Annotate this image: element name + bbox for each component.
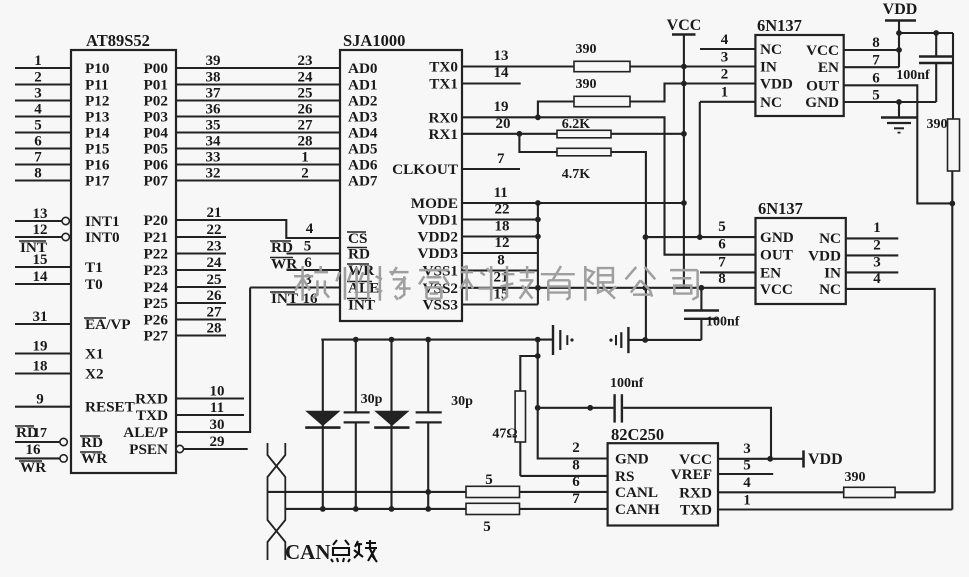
svg-text:26: 26 xyxy=(298,102,314,118)
svg-text:AT89S52: AT89S52 xyxy=(86,31,150,50)
SJA1000 VSS3 label xyxy=(423,297,459,314)
SJA1000 TX1 label xyxy=(429,76,458,93)
resistor R2 390 (RX0 pull-up to anode line) xyxy=(538,77,684,117)
SJA1000 ALE label (overlined) xyxy=(347,280,379,297)
twisted pair CAN bus symbol xyxy=(268,443,286,560)
svg-text:CAN: CAN xyxy=(285,540,331,564)
82C250 VREF pin 5 stub xyxy=(718,458,773,475)
svg-text:30: 30 xyxy=(210,417,225,433)
6N137 U4 pin 4 lead down to R8/RXD xyxy=(846,271,935,492)
svg-text:32: 32 xyxy=(206,166,221,182)
svg-text:100nf: 100nf xyxy=(896,68,930,83)
svg-text:CANL: CANL xyxy=(615,484,658,501)
wire ground rail down to 82C250 GND xyxy=(535,340,608,459)
svg-text:36: 36 xyxy=(206,102,222,118)
svg-text:ALE/P: ALE/P xyxy=(123,424,168,441)
wire AT89S52 P06 (pin 33) to SJA1000 AD bus (pin 1) xyxy=(144,150,340,174)
svg-text:SJA1000: SJA1000 xyxy=(343,31,405,50)
SJA1000 AD1 label xyxy=(348,77,378,94)
capacitor C5 100nf (82C250 supply) xyxy=(538,376,771,459)
svg-text:390: 390 xyxy=(927,117,948,132)
SJA1000 ALE pin 3 lead xyxy=(250,272,340,288)
wire R1 to 6N137 U3 pin 3 IN xyxy=(684,50,756,67)
SJA1000 CLKOUT label xyxy=(392,161,458,178)
svg-text:NC: NC xyxy=(760,94,782,111)
wire AT89S52 P05 (pin 34) to SJA1000 AD bus (pin 28) xyxy=(144,134,340,158)
svg-text:OUT: OUT xyxy=(760,247,793,264)
svg-text:26: 26 xyxy=(207,288,223,304)
6N137 U4 pin 1 NC stub xyxy=(846,220,899,238)
svg-text:8: 8 xyxy=(34,166,42,182)
SJA1000 AD0 label xyxy=(348,60,378,77)
svg-text:37: 37 xyxy=(206,86,222,102)
svg-text:VDD: VDD xyxy=(883,1,918,18)
svg-text:8: 8 xyxy=(872,35,880,51)
svg-text:27: 27 xyxy=(298,118,314,134)
AT89S52 pin 11 TXD stub xyxy=(136,400,244,424)
svg-text:7: 7 xyxy=(34,150,42,166)
svg-text:P26: P26 xyxy=(144,312,169,329)
svg-text:CANH: CANH xyxy=(615,501,660,518)
svg-text:X1: X1 xyxy=(85,346,104,363)
svg-text:31: 31 xyxy=(33,309,48,325)
AT89S52 pin 12 INT0 lead with bubble xyxy=(15,222,120,246)
svg-text:1: 1 xyxy=(873,220,881,236)
resistor R4 4.7K (RX1 network) xyxy=(519,134,646,340)
AT89S52 pin 27 P26 stub xyxy=(144,305,226,329)
svg-text:TX1: TX1 xyxy=(429,76,458,93)
svg-text:RX1: RX1 xyxy=(428,126,458,143)
svg-text:PSEN: PSEN xyxy=(129,441,168,458)
svg-text:390: 390 xyxy=(576,77,597,92)
AT89S52 pin 9 RESET lead xyxy=(15,392,135,416)
svg-text:RX0: RX0 xyxy=(428,109,458,126)
SJA1000 AD5 label xyxy=(348,141,378,158)
AT89S52 pin 24 P23 stub xyxy=(144,255,226,279)
AT89S52 pin 18 X2 lead xyxy=(15,359,104,383)
svg-text:1: 1 xyxy=(34,53,42,69)
svg-text:VREF: VREF xyxy=(671,466,712,483)
svg-text:3: 3 xyxy=(34,86,42,102)
AT89S52 pin 26 P25 stub xyxy=(144,288,226,312)
svg-text:P27: P27 xyxy=(144,328,169,345)
6N137 U3 pin 1 NC lead down to U4 GND line xyxy=(700,85,756,238)
AT89S52 pin 21 P20 wire with elbow to SJA1000 CS xyxy=(144,205,340,238)
svg-text:6: 6 xyxy=(718,237,726,253)
6N137 U4 internal labels xyxy=(760,229,841,298)
svg-text:P10: P10 xyxy=(85,60,110,77)
svg-text:8: 8 xyxy=(497,253,505,269)
ground symbol (bus protection rail) xyxy=(553,325,574,355)
wire AT89S52 P01 (pin 38) to SJA1000 AD bus (pin 24) xyxy=(144,70,340,94)
AT89S52 pin 19 X1 lead xyxy=(15,339,104,363)
wire AT89S52 P00 (pin 39) to SJA1000 AD bus (pin 23) xyxy=(144,53,340,77)
svg-text:11: 11 xyxy=(494,185,508,201)
6N137 U3 pin 8 VCC lead to VDD xyxy=(844,35,902,53)
AT89S52 pin 25 P24 stub xyxy=(144,272,226,296)
svg-text:12: 12 xyxy=(495,235,510,251)
wire INT stub to SJA1000 pin 16 xyxy=(270,290,340,307)
svg-text:4: 4 xyxy=(743,475,751,491)
svg-text:P15: P15 xyxy=(85,141,110,158)
wire SJA1000 CLKOUT pin 7 stub xyxy=(462,151,520,169)
AT89S52 pin 17 RD lead with bubble xyxy=(15,424,103,451)
svg-text:EN: EN xyxy=(818,59,839,76)
AT89S52 pin 10 RXD stub xyxy=(135,384,244,408)
SJA1000 RX0 label xyxy=(428,109,458,126)
AT89S52 pin 28 P27 stub xyxy=(144,321,226,345)
svg-text:23: 23 xyxy=(207,239,222,255)
82C250 VCC pin 3 lead to VDD tap xyxy=(718,441,804,462)
net label INT (overlined) at AT89S52 INT0 xyxy=(19,239,47,256)
6N137 U4 pin 2 VDD stub xyxy=(846,238,899,256)
capacitor C4 30p xyxy=(416,340,474,509)
svg-text:47Ω: 47Ω xyxy=(492,427,517,442)
svg-text:TXD: TXD xyxy=(136,407,168,424)
wire anode line to 6N137 U3 pin 2 VDD xyxy=(684,67,756,84)
junction R3/VCC xyxy=(681,131,687,137)
svg-text:RXD: RXD xyxy=(679,484,712,501)
svg-text:1: 1 xyxy=(743,493,751,509)
svg-text:5: 5 xyxy=(34,118,42,134)
svg-text:38: 38 xyxy=(206,70,221,86)
svg-text:390: 390 xyxy=(845,470,866,485)
svg-text:GND: GND xyxy=(805,94,839,111)
svg-text:P04: P04 xyxy=(144,125,169,142)
wire SJA1000 VDD3 pin 12 to rail xyxy=(462,235,538,253)
svg-text:VDD2: VDD2 xyxy=(418,229,459,246)
SJA1000 MODE label xyxy=(411,195,458,212)
junction RX0 pull-up xyxy=(535,114,541,120)
SJA1000 VDD3 label xyxy=(418,245,459,262)
IC U2 SJA1000 body xyxy=(340,31,462,321)
svg-text:6: 6 xyxy=(572,474,580,490)
svg-text:X2: X2 xyxy=(85,366,104,383)
6N137 U4 pin 5 GND lead xyxy=(643,219,756,240)
wire AT89S52 P04 (pin 35) to SJA1000 AD bus (pin 27) xyxy=(144,118,340,142)
SJA1000 RX1 label xyxy=(428,126,458,143)
AT89S52 pin 4 P13 left lead xyxy=(15,102,110,126)
6N137 U3 pin 7 EN lead to VDD xyxy=(844,53,899,69)
svg-text:14: 14 xyxy=(33,269,49,285)
SJA1000 AD3 label xyxy=(348,109,378,126)
svg-text:4: 4 xyxy=(306,221,314,237)
svg-text:VDD1: VDD1 xyxy=(418,212,459,229)
svg-text:20: 20 xyxy=(496,116,511,132)
svg-text:INT1: INT1 xyxy=(85,213,120,230)
svg-text:P02: P02 xyxy=(144,93,168,110)
svg-text:AD0: AD0 xyxy=(348,60,378,77)
svg-text:29: 29 xyxy=(210,434,225,450)
SJA1000 AD2 label xyxy=(348,93,378,110)
svg-text:27: 27 xyxy=(207,305,223,321)
svg-text:P20: P20 xyxy=(144,212,169,229)
svg-text:IN: IN xyxy=(760,59,777,76)
svg-text:OUT: OUT xyxy=(806,77,839,94)
svg-text:P22: P22 xyxy=(144,246,168,263)
svg-text:NC: NC xyxy=(819,230,841,247)
svg-text:6N137: 6N137 xyxy=(758,199,803,218)
svg-text:2: 2 xyxy=(34,70,42,86)
AT89S52 pin 8 P17 left lead xyxy=(15,166,110,190)
wire SJA1000 VDD1 pin 22 to rail xyxy=(462,202,541,223)
svg-text:5: 5 xyxy=(483,519,491,535)
svg-text:IN: IN xyxy=(824,264,841,281)
svg-text:13: 13 xyxy=(494,48,509,64)
svg-text:P14: P14 xyxy=(85,125,110,142)
svg-text:11: 11 xyxy=(210,400,224,416)
svg-text:5: 5 xyxy=(304,239,312,255)
svg-text:P12: P12 xyxy=(85,93,109,110)
svg-text:4: 4 xyxy=(873,271,881,287)
svg-text:P21: P21 xyxy=(144,229,168,246)
SJA1000 CS label (overlined) xyxy=(347,230,367,247)
AT89S52 pin 16 WR lead with bubble xyxy=(15,442,108,476)
AT89S52 pin 13 INT1 lead with bubble xyxy=(15,206,120,230)
diode D1 (bus clamp) with vertical wire xyxy=(305,340,340,509)
svg-text:P06: P06 xyxy=(144,157,169,174)
svg-text:AD1: AD1 xyxy=(348,77,378,94)
svg-text:39: 39 xyxy=(206,53,221,69)
wire CANL bus line with resistor R7 5 xyxy=(268,472,608,498)
wire SJA1000 VSS3 pin 15 to rail xyxy=(462,287,538,305)
SJA1000 AD7 label xyxy=(348,173,378,190)
svg-text:VDD: VDD xyxy=(808,247,841,264)
svg-text:6: 6 xyxy=(872,71,880,87)
svg-text:7: 7 xyxy=(872,53,880,69)
svg-text:P23: P23 xyxy=(144,262,169,279)
svg-text:24: 24 xyxy=(298,70,314,86)
IC U3 6N137 optocoupler body xyxy=(755,16,843,116)
82C250 internal labels xyxy=(615,451,712,519)
diode D2 (bus clamp) with vertical wire xyxy=(374,340,409,509)
wire AT89S52 ALE/P pin 30 up to SJA1000 ALE xyxy=(123,288,250,442)
svg-text:4: 4 xyxy=(34,102,42,118)
wire R6 to 82C250 RS pin 8 xyxy=(520,458,607,476)
svg-text:14: 14 xyxy=(494,65,510,81)
svg-text:2: 2 xyxy=(873,238,881,254)
AT89S52 pin 29 PSEN stub with bubble xyxy=(129,434,248,458)
svg-text:6N137: 6N137 xyxy=(757,16,802,35)
svg-text:15: 15 xyxy=(33,252,48,268)
svg-text:T0: T0 xyxy=(85,276,103,293)
AT89S52 pin 23 P22 stub xyxy=(144,239,226,263)
svg-text:P16: P16 xyxy=(85,157,110,174)
svg-text:P00: P00 xyxy=(144,60,169,77)
svg-text:AD5: AD5 xyxy=(348,141,378,158)
svg-text:25: 25 xyxy=(298,86,313,102)
svg-text:4: 4 xyxy=(721,32,729,48)
junction dot on CANL bus line xyxy=(425,489,431,495)
svg-text:TXD: TXD xyxy=(680,502,712,519)
SJA1000 AD4 label xyxy=(348,125,378,142)
IC U4 6N137 optocoupler body xyxy=(756,199,846,304)
svg-text:INT0: INT0 xyxy=(85,229,120,246)
svg-text:VCC: VCC xyxy=(667,17,702,34)
svg-text:7: 7 xyxy=(497,151,505,167)
AT89S52 pin 15 T1 lead xyxy=(15,252,103,276)
capacitor C3 30p xyxy=(344,340,383,509)
svg-text:2: 2 xyxy=(301,166,309,182)
svg-text:P17: P17 xyxy=(85,173,110,190)
svg-text:6: 6 xyxy=(34,134,42,150)
svg-text:22: 22 xyxy=(207,222,222,238)
svg-text:19: 19 xyxy=(494,99,509,115)
svg-text:P11: P11 xyxy=(85,77,109,94)
svg-text:28: 28 xyxy=(298,134,313,150)
svg-text:30p: 30p xyxy=(361,392,383,407)
svg-text:33: 33 xyxy=(206,150,221,166)
watermark text hangzhou company (light gray) xyxy=(294,266,698,301)
svg-text:12: 12 xyxy=(33,222,48,238)
svg-text:30p: 30p xyxy=(451,394,473,409)
svg-text:P03: P03 xyxy=(144,109,169,126)
svg-text:82C250: 82C250 xyxy=(611,425,664,444)
SJA1000 VSS2 label xyxy=(423,280,458,297)
svg-text:28: 28 xyxy=(207,321,222,337)
svg-text:AD3: AD3 xyxy=(348,109,378,126)
svg-text:TX0: TX0 xyxy=(429,59,458,76)
svg-text:21: 21 xyxy=(207,205,222,221)
junction RX1/R4 tap xyxy=(517,131,523,137)
resistor R3 6.2K (RX1 pull-up) xyxy=(557,117,684,138)
wire AT89S52 P02 (pin 37) to SJA1000 AD bus (pin 25) xyxy=(144,86,340,110)
wire CAN bus top common rail to ground xyxy=(321,337,553,343)
junction TX0/VCC xyxy=(681,64,687,70)
svg-text:P07: P07 xyxy=(144,173,169,190)
SJA1000 AD6 label xyxy=(348,157,378,174)
AT89S52 pin 5 P14 left lead xyxy=(15,118,110,142)
6N137 U3 pin 5 GND lead xyxy=(844,88,937,105)
svg-text:100nf: 100nf xyxy=(610,376,644,391)
svg-text:NC: NC xyxy=(819,281,841,298)
6N137 U4 pin 3 IN stub xyxy=(846,255,899,273)
svg-text:2: 2 xyxy=(721,67,729,83)
AT89S52 pin 14 T0 lead xyxy=(15,269,103,293)
AT89S52 pin 7 P16 left lead xyxy=(15,150,110,174)
label CAN zongxian (CAN bus) text xyxy=(285,540,377,564)
AT89S52 pin 31 EA/VP lead xyxy=(15,309,131,333)
wire AT89S52 P03 (pin 36) to SJA1000 AD bus (pin 26) xyxy=(144,102,340,126)
svg-text:P05: P05 xyxy=(144,141,169,158)
ground symbol (digital side, below U3) xyxy=(881,102,917,133)
capacitor C2 100nf (isolated supply decoupling) xyxy=(684,288,740,340)
svg-text:8: 8 xyxy=(572,458,580,474)
wire CANH bus line with resistor R8 5 xyxy=(285,491,607,535)
vertical rail at MODE/VDD column xyxy=(537,203,539,305)
6N137 U4 pin 7 EN stub xyxy=(700,255,756,273)
svg-text:GND: GND xyxy=(615,451,649,468)
svg-text:1: 1 xyxy=(301,150,309,166)
svg-text:4.7K: 4.7K xyxy=(562,167,591,182)
svg-text:22: 22 xyxy=(495,202,510,218)
6N137 U3 pin 4 NC stub xyxy=(700,32,755,49)
svg-text:19: 19 xyxy=(33,339,48,355)
82C250 TXD pin 1 lead to R5 node xyxy=(718,493,952,510)
SJA1000 TX0 label xyxy=(429,59,458,76)
wire WR stub to SJA1000 pin 6 xyxy=(270,255,340,273)
svg-text:GND: GND xyxy=(760,229,794,246)
6N137 U3 pin 6 OUT lead down to R5/TXD node xyxy=(844,71,955,207)
AT89S52 pin 2 P11 left lead xyxy=(15,70,109,94)
svg-text:AD2: AD2 xyxy=(348,93,378,110)
svg-text:16: 16 xyxy=(26,442,42,458)
svg-text:13: 13 xyxy=(33,206,48,222)
svg-text:1: 1 xyxy=(721,85,729,101)
SJA1000 VSS1 label xyxy=(423,263,458,280)
svg-text:6: 6 xyxy=(304,255,312,271)
wire isolated ground node xyxy=(628,337,701,343)
svg-text:P25: P25 xyxy=(144,295,169,312)
svg-text:P01: P01 xyxy=(144,77,168,94)
svg-text:NC: NC xyxy=(760,41,782,58)
svg-text:390: 390 xyxy=(576,42,597,57)
svg-text:2: 2 xyxy=(572,440,580,456)
wire SJA1000 RX1 pin 20 to R3 xyxy=(462,116,557,134)
IC U1 AT89S52 body xyxy=(71,31,176,473)
svg-text:10: 10 xyxy=(210,384,225,400)
capacitor C1 100nf (VDD decoupling) xyxy=(896,33,953,102)
82C250 RXD pin 4 lead with resistor R9 390 xyxy=(718,470,935,498)
SJA1000 VDD1 label xyxy=(418,212,459,229)
wire VDD rail to R5 branch xyxy=(899,30,953,36)
svg-text:P24: P24 xyxy=(144,279,169,296)
svg-text:P13: P13 xyxy=(85,109,110,126)
svg-text:CLKOUT: CLKOUT xyxy=(392,161,458,178)
wire SJA1000 VSS1 pin 8 to rail xyxy=(462,253,538,271)
resistor R1 390 (TX0 series) xyxy=(574,42,684,72)
SJA1000 INT label (overlined) xyxy=(347,297,375,314)
AT89S52 pin 6 P15 left lead xyxy=(15,134,110,158)
SJA1000 WR label (overlined) xyxy=(347,262,375,279)
svg-text:RXD: RXD xyxy=(135,391,168,408)
svg-text:EN: EN xyxy=(760,264,781,281)
svg-text:9: 9 xyxy=(36,392,44,408)
svg-text:RESET: RESET xyxy=(85,399,135,416)
svg-text:VDD: VDD xyxy=(808,451,843,468)
wire RD stub to SJA1000 pin 5 xyxy=(270,239,340,257)
SJA1000 VDD2 label xyxy=(418,229,459,246)
svg-text:25: 25 xyxy=(207,272,222,288)
wire SJA1000 TX1 pin 14 stub xyxy=(462,65,521,84)
svg-text:7: 7 xyxy=(718,255,726,271)
svg-text:5: 5 xyxy=(718,219,726,235)
svg-text:AD7: AD7 xyxy=(348,173,378,190)
svg-text:18: 18 xyxy=(33,359,48,375)
svg-text:AD4: AD4 xyxy=(348,125,378,142)
svg-text:35: 35 xyxy=(206,118,221,134)
svg-text:3: 3 xyxy=(721,50,729,66)
svg-text:MODE: MODE xyxy=(411,195,458,212)
AT89S52 pin 22 P21 stub xyxy=(144,222,226,246)
ground symbol (isolated side, mirrored) xyxy=(609,327,628,353)
wire SJA1000 RX0 pin 19 down to 6N137 U4 OUT xyxy=(462,99,756,255)
SJA1000 RD label (overlined) xyxy=(347,246,370,263)
power tap VDD at 82C250 xyxy=(804,450,843,468)
junction dots on CANH bus line xyxy=(320,506,431,512)
resistor R5 390 (TXD pull-up, vertical) xyxy=(927,33,960,510)
power symbol VDD (top right) xyxy=(883,1,918,67)
svg-text:3: 3 xyxy=(873,255,881,271)
resistor R6 47 ohm (RS slope) xyxy=(492,356,537,476)
wire SJA1000 TX0 pin 13 to R1 xyxy=(462,48,574,67)
wire SJA1000 MODE pin 11 to VCC rail xyxy=(462,185,687,206)
wire SJA1000 VSS2 pin 21 ground line to 6N137 U4 pin 8 VCC xyxy=(462,270,756,291)
AT89S52 pin 1 P10 left lead xyxy=(15,53,110,77)
AT89S52 pin 3 P12 left lead xyxy=(15,86,109,110)
svg-text:18: 18 xyxy=(495,219,510,235)
svg-text:VCC: VCC xyxy=(760,281,793,298)
